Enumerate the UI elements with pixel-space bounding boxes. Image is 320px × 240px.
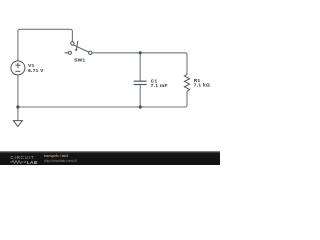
switch SW1 arrow head xyxy=(75,49,78,52)
svg-text:6.71 V: 6.71 V xyxy=(28,68,44,73)
resistor R1 xyxy=(184,75,189,92)
wire resistor bottom lead and bottom rail xyxy=(18,92,187,108)
wire top-left loop from V1 top to switch xyxy=(18,29,73,61)
CircuitLab logo LAB line with zigzag xyxy=(10,159,40,165)
svg-text:SW1: SW1 xyxy=(74,58,85,63)
switch SW1 xyxy=(65,41,92,55)
wire node A from switch to resistor top xyxy=(92,53,187,75)
node junction dot at capacitor top xyxy=(139,51,142,54)
CircuitLab logo CIRCUIT xyxy=(10,155,34,160)
label C1 value xyxy=(151,78,168,88)
ground xyxy=(13,121,22,127)
wire capacitor top lead xyxy=(139,53,141,81)
footer user/circuit text xyxy=(44,154,68,158)
voltage source V1 xyxy=(11,61,25,75)
node junction dot at ground xyxy=(16,105,19,108)
svg-text:LAB: LAB xyxy=(27,160,38,165)
wire capacitor bottom lead xyxy=(139,84,141,107)
label R1 value xyxy=(194,78,210,87)
svg-text:7.1 mF: 7.1 mF xyxy=(151,83,168,88)
capacitor C1 xyxy=(134,81,147,84)
wire ground stub xyxy=(17,107,19,120)
label V1 value xyxy=(28,63,44,73)
node junction dot at capacitor bottom xyxy=(139,105,142,108)
footer url text xyxy=(44,159,77,163)
footer black bar xyxy=(0,151,220,165)
wire V1 bottom lead xyxy=(17,75,19,107)
svg-text:7.1 kΩ: 7.1 kΩ xyxy=(194,82,210,87)
